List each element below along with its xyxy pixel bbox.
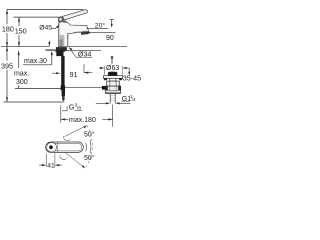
dim O63 right line	[126, 67, 129, 69]
arrowhead max180 right	[108, 118, 112, 120]
tailpipe threads	[110, 96, 115, 101]
svg-text:max.30: max.30	[24, 58, 47, 65]
arrowhead G114 pointing right	[106, 102, 110, 104]
wire extension line for dim 150	[14, 16, 60, 18]
drain wide block	[105, 86, 120, 93]
arrowhead swivel up	[84, 125, 88, 128]
text max. 300	[13, 69, 29, 86]
svg-text:395: 395	[1, 62, 13, 71]
text O63 with bg	[106, 64, 121, 73]
svg-text:max.180: max.180	[69, 117, 96, 124]
dim 41 left line	[39, 164, 42, 166]
faucet body side view	[58, 10, 88, 47]
spout inner line	[73, 31, 87, 33]
ext line O63 right	[121, 66, 123, 75]
rod top knob	[111, 56, 113, 58]
svg-text:91: 91	[70, 72, 78, 79]
block inner verticals	[110, 86, 116, 90]
svg-text:Ø63: Ø63	[106, 65, 119, 72]
svg-text:41: 41	[47, 163, 55, 170]
flange right seal	[119, 78, 123, 80]
text 150	[14, 26, 27, 35]
svg-text:90: 90	[106, 35, 114, 42]
block lower line	[105, 90, 120, 92]
drain upper body	[107, 81, 120, 86]
block right dark	[118, 86, 120, 90]
svg-text:50°: 50°	[84, 130, 95, 138]
tailpipe left	[109, 94, 111, 104]
dimension max300 vertical line	[18, 51, 20, 68]
arrowhead 150 top up	[18, 17, 20, 21]
text 41	[47, 161, 55, 169]
G38 leader	[62, 106, 67, 111]
arrowhead 180 bottom down	[6, 42, 8, 46]
G1 1/4 dim left line	[96, 102, 106, 104]
arm ball joint	[102, 86, 105, 90]
arrowhead 395 bottom down	[6, 97, 8, 101]
flange left seal	[104, 78, 108, 80]
text G1 1/4	[121, 94, 135, 103]
top view inner circle	[47, 142, 57, 152]
arrowhead 91 right pointing left	[84, 72, 88, 74]
swivel line down	[66, 153, 83, 167]
leader O45	[51, 27, 58, 29]
ext line O63 left	[104, 66, 106, 75]
knob highlight	[59, 18, 61, 21]
svg-text:Ø45: Ø45	[39, 24, 52, 31]
arrowhead 395 top up below deck	[6, 47, 8, 51]
deck intermediate line	[45, 48, 56, 50]
dim 20deg underline	[87, 27, 109, 29]
drain neck	[109, 78, 116, 81]
arrowhead 90 left	[85, 31, 90, 33]
top view center dot	[49, 145, 53, 149]
svg-text:300: 300	[16, 79, 28, 86]
arrowhead 35-45 down	[128, 72, 130, 76]
swivel ghost arc bottom	[60, 155, 67, 160]
svg-text:/8: /8	[77, 106, 81, 112]
arrowhead 150 bottom down	[18, 42, 20, 46]
tee joint	[61, 85, 65, 90]
deck top line right	[68, 46, 127, 48]
ref line max300 bottom	[15, 87, 61, 89]
drain body inner lines	[110, 81, 116, 86]
shank nut	[56, 51, 63, 56]
arrowhead 20deg down	[111, 24, 113, 28]
arrowhead swivel down	[82, 165, 85, 168]
block left dark	[105, 86, 107, 90]
ext line 41 left	[45, 154, 47, 168]
wire extension line top for dim 180	[7, 9, 84, 11]
hose g38 tip	[62, 99, 65, 101]
drain cap	[108, 72, 117, 76]
svg-text:max.: max.	[14, 71, 29, 78]
arrowhead 41 left pointing right	[42, 164, 46, 166]
tailpipe right	[114, 94, 116, 104]
arrowhead 91 left pointing right	[56, 72, 60, 74]
max.30 underline leader	[23, 64, 52, 66]
max30 upper arrow line	[48, 41, 50, 44]
hose lower part	[62, 86, 65, 96]
arrowhead max180 left	[61, 118, 65, 120]
arrowhead O63 right pointing left	[122, 67, 126, 69]
dim 41 right line	[59, 164, 62, 166]
swivel line up	[65, 127, 85, 137]
svg-text:180: 180	[2, 24, 14, 33]
dim 90 leader line	[87, 31, 115, 33]
spout underside shade	[67, 34, 69, 46]
dimension 180 vertical line	[6, 10, 8, 24]
max180 dim line right	[102, 118, 112, 120]
ref line bottom 395	[4, 101, 65, 103]
arrowhead max300 bottom down	[18, 84, 20, 88]
dim O63 left line	[99, 67, 101, 69]
dimension 395 vertical line	[6, 47, 8, 61]
arrowhead G114 pointing left	[115, 102, 119, 104]
35-45 arrow vertical	[128, 68, 130, 72]
hose nipple	[62, 96, 65, 99]
leader O34	[71, 50, 76, 57]
drain flange	[103, 76, 122, 79]
dim 91 right segment	[84, 72, 92, 74]
dimension 150 vertical line	[18, 17, 20, 26]
drain bottom line	[105, 93, 120, 95]
ext line 91 right	[83, 64, 85, 73]
lever knob	[58, 17, 64, 23]
shank hardware below deck	[56, 47, 67, 51]
top view joint line	[57, 142, 59, 152]
svg-text:50°: 50°	[84, 154, 95, 162]
svg-text:20°: 20°	[95, 22, 106, 30]
rod and hose dark bar	[61, 56, 64, 86]
max180 right boundary vertical	[112, 105, 114, 127]
ext line 41 right	[54, 154, 56, 168]
cartridge shadow under lever	[63, 21, 67, 23]
dim 91 line left arrow	[52, 72, 57, 74]
top view inner outline	[47, 144, 82, 151]
arrowhead O45	[56, 25, 60, 29]
text 180	[1, 24, 15, 33]
max180 left boundary vertical	[60, 106, 62, 123]
dashed swivel arc	[85, 126, 92, 168]
max30 lower arrow line	[51, 55, 53, 65]
arrowhead max30 upper down	[48, 42, 50, 46]
drain pull rod	[111, 56, 113, 71]
arrowhead max300 top up	[18, 51, 20, 55]
body lower shading	[59, 35, 64, 46]
svg-text:/4: /4	[132, 97, 136, 102]
text G 3/8	[69, 103, 82, 112]
max180 dim line left	[61, 118, 69, 120]
pop-up arm wire	[65, 87, 102, 89]
arrowhead O63 left pointing right	[100, 67, 104, 69]
swivel ghost arc top	[64, 136, 71, 141]
deck bottom line	[46, 50, 102, 52]
top view pill outline	[46, 142, 84, 152]
O34 underline	[76, 57, 92, 59]
solid swivel arc middle	[90, 140, 91, 153]
arrowhead 180 top up	[6, 10, 8, 14]
arrowhead 41 right pointing left	[55, 164, 59, 166]
deck top line left	[1, 46, 50, 48]
spout tip arc center position	[86, 143, 87, 152]
arrowhead max30 lower up	[51, 51, 53, 55]
text 395	[0, 61, 14, 71]
20deg tick mark	[110, 19, 114, 24]
G1 1/4 dim right line	[119, 102, 130, 104]
aerator	[81, 32, 88, 35]
svg-text:35-45: 35-45	[123, 73, 141, 82]
svg-text:150: 150	[15, 27, 27, 36]
arrowhead O34	[69, 47, 73, 50]
shank washer	[55, 51, 65, 52]
body left shade	[58, 25, 60, 47]
lever paddle	[60, 10, 88, 20]
body and spout	[59, 22, 89, 47]
